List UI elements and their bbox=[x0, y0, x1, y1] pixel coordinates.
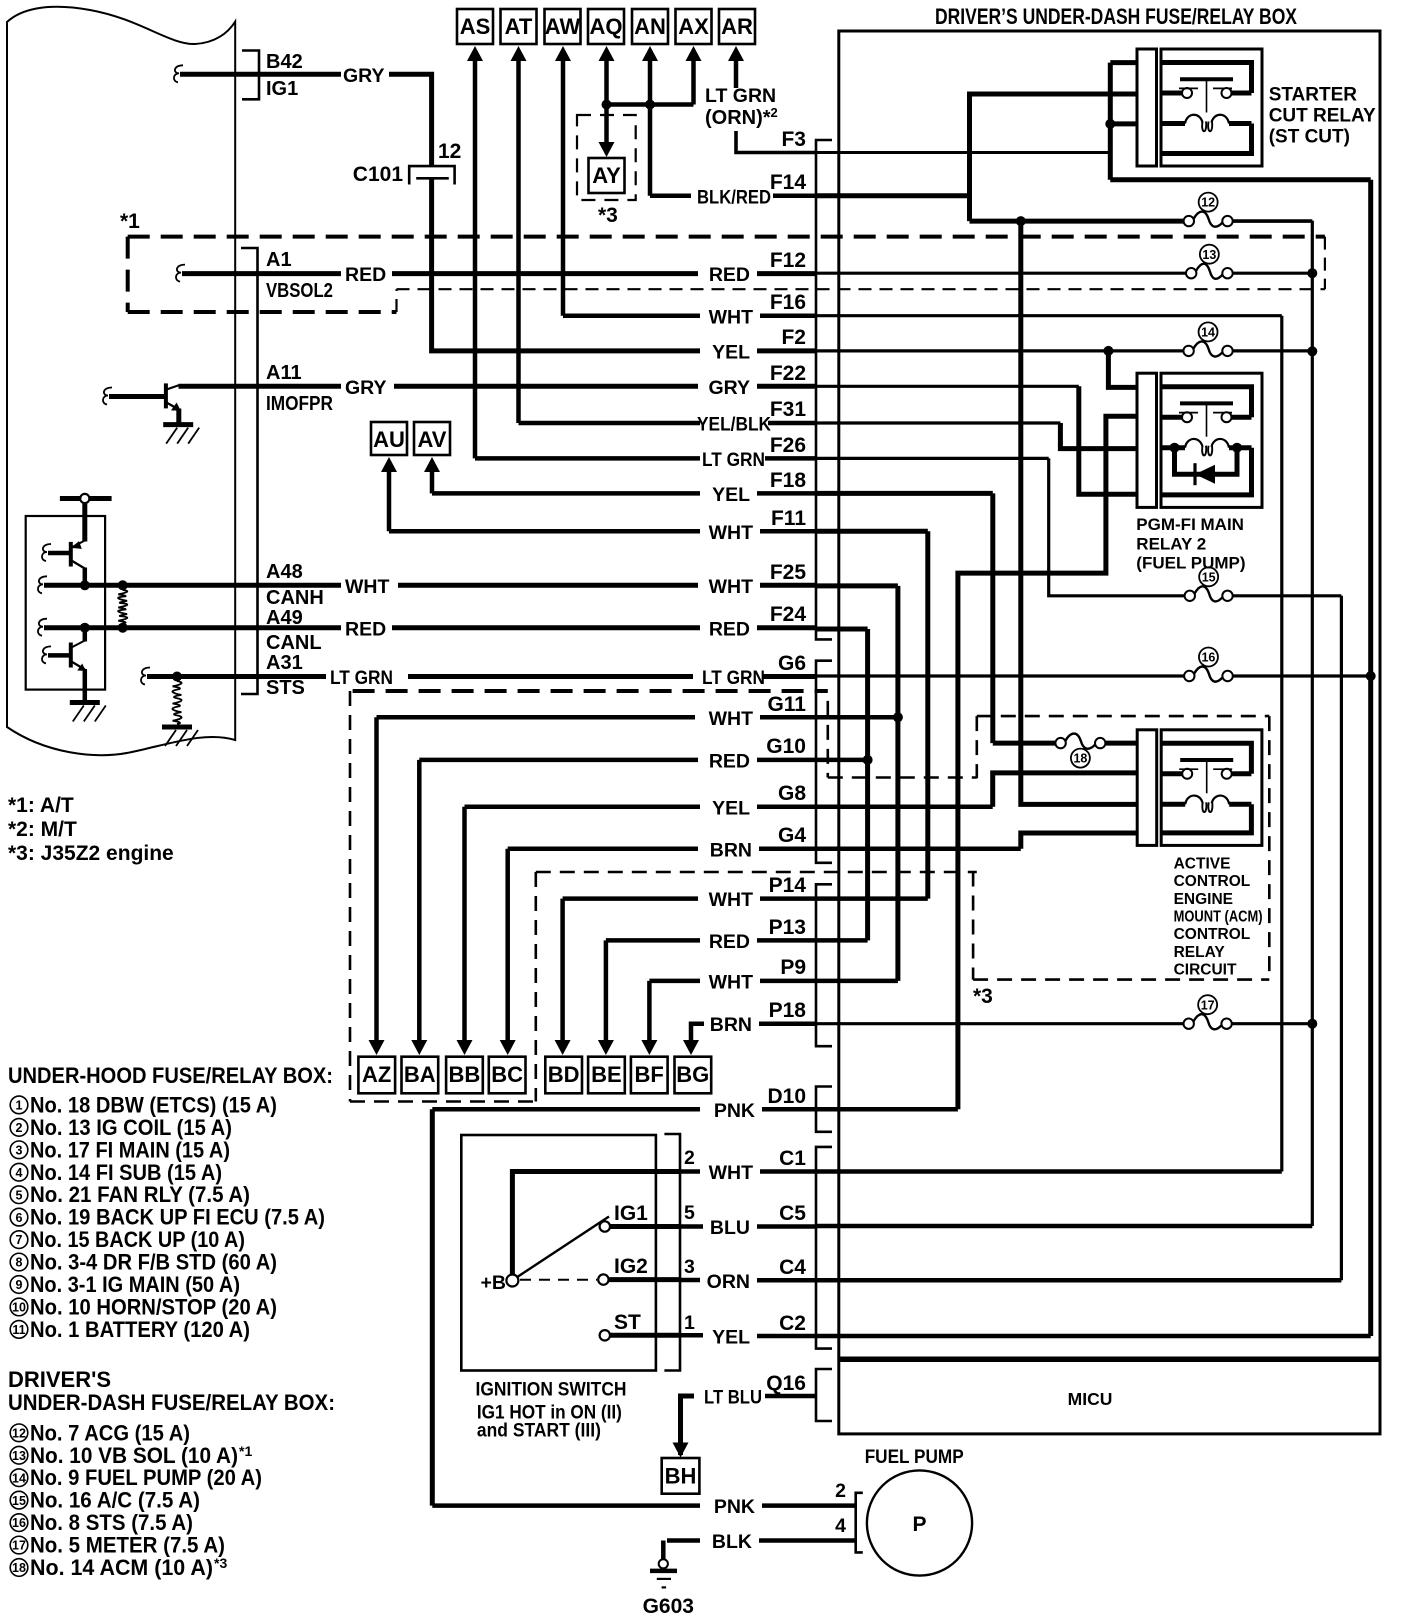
wire D10 inside box to riser bbox=[816, 1107, 958, 1112]
MICU box bbox=[839, 1361, 1380, 1434]
legend item 17 bbox=[10, 1536, 28, 1554]
svg-text:C5: C5 bbox=[779, 1202, 806, 1225]
connector box BH bbox=[662, 1458, 700, 1494]
wire fuse 12 feed bbox=[970, 219, 1184, 224]
ground wire G603 bbox=[661, 1541, 666, 1560]
svg-text:VBSOL2: VBSOL2 bbox=[266, 280, 333, 302]
svg-text:*1: A/T: *1: A/T bbox=[8, 794, 74, 817]
wire F16 to C1 riser bbox=[816, 314, 1282, 317]
wire ORN C4 bbox=[680, 1278, 700, 1283]
svg-text:11: 11 bbox=[12, 1323, 25, 1337]
legend item 11 bbox=[10, 1321, 28, 1339]
svg-text:8: 8 bbox=[16, 1256, 23, 1270]
svg-text:16: 16 bbox=[12, 1516, 26, 1530]
svg-text:1: 1 bbox=[16, 1099, 23, 1113]
wire F2 row to fuse 14 bbox=[816, 349, 1183, 352]
dashed region *1 (A/T) bbox=[128, 235, 1325, 239]
junction dot starter coil feed bbox=[1105, 119, 1115, 129]
svg-text:BG: BG bbox=[676, 1062, 709, 1087]
legend item 2 bbox=[10, 1119, 28, 1137]
junction dot G10 bbox=[863, 755, 873, 765]
wire WHT to F16 pin bbox=[563, 313, 700, 318]
terminal IG2 bbox=[598, 1274, 608, 1284]
wire F26 row to fuse 15 bbox=[816, 457, 1049, 460]
svg-text:No. 1 BATTERY (120 A): No. 1 BATTERY (120 A) bbox=[30, 1317, 250, 1342]
wire GRY from B42 to C101 bus bbox=[259, 72, 341, 77]
svg-text:BD: BD bbox=[548, 1062, 580, 1087]
svg-text:RED: RED bbox=[709, 751, 750, 773]
arrow into AV from F18 wire bbox=[424, 457, 440, 472]
svg-text:BH: BH bbox=[665, 1464, 697, 1489]
svg-text:12: 12 bbox=[1201, 196, 1215, 210]
connector box AN bbox=[632, 9, 668, 44]
svg-text:DRIVER'S: DRIVER'S bbox=[8, 1367, 111, 1392]
wire BLK/RED to F14 pin bbox=[650, 193, 691, 198]
svg-text:4: 4 bbox=[16, 1166, 23, 1180]
resistor (CAN termination) bbox=[118, 590, 127, 623]
wire starter relay contact from F14 riser bbox=[970, 94, 1137, 221]
svg-text:*1: *1 bbox=[120, 210, 140, 233]
svg-text:14: 14 bbox=[1201, 326, 1215, 340]
transistor Q IMOFPR driver bbox=[103, 388, 112, 405]
svg-text:16: 16 bbox=[1201, 651, 1215, 665]
connector box BA bbox=[402, 1057, 439, 1094]
wire A49 CANL bbox=[44, 625, 258, 630]
svg-text:A1: A1 bbox=[266, 249, 292, 271]
wire F11 row to P14 riser bbox=[816, 529, 928, 534]
svg-text:IG1: IG1 bbox=[614, 1202, 648, 1225]
svg-text:+B: +B bbox=[481, 1272, 506, 1294]
wire F22 row to relay2 bottom bbox=[816, 385, 1079, 388]
svg-text:No. 10 HORN/STOP (20 A): No. 10 HORN/STOP (20 A) bbox=[30, 1294, 277, 1319]
wire RED G10 to BA bbox=[419, 758, 698, 763]
connector box AY bbox=[589, 158, 625, 193]
svg-text:No. 3-1 IG MAIN (50 A): No. 3-1 IG MAIN (50 A) bbox=[30, 1272, 240, 1297]
wire G11 row inside box bbox=[816, 715, 898, 720]
connector bracket C bbox=[816, 1147, 832, 1349]
svg-text:F14: F14 bbox=[770, 171, 807, 194]
wire YEL G8 to BB bbox=[465, 805, 701, 810]
svg-text:No. 3-4 DR F/B STD (60 A): No. 3-4 DR F/B STD (60 A) bbox=[30, 1250, 277, 1275]
wire fuse17 output to C5 riser bbox=[1232, 1022, 1313, 1025]
svg-text:WHT: WHT bbox=[709, 889, 753, 911]
svg-text:YEL/BLK: YEL/BLK bbox=[697, 414, 771, 436]
inline connector C101 pin 12 bbox=[409, 166, 454, 184]
svg-text:3: 3 bbox=[684, 1256, 695, 1278]
svg-text:RED: RED bbox=[345, 619, 386, 641]
fuse 15 bbox=[1185, 591, 1195, 601]
svg-text:B42: B42 bbox=[266, 51, 303, 73]
legend item 9 bbox=[10, 1276, 28, 1294]
connector bracket B42 bbox=[242, 51, 259, 100]
wire YEL from C101 to F2 pin bbox=[432, 178, 700, 351]
legend item 7 bbox=[10, 1231, 28, 1249]
transistor Q2 (CANL) bbox=[42, 646, 51, 663]
svg-text:GRY: GRY bbox=[708, 377, 750, 399]
legend item 1 bbox=[10, 1096, 28, 1114]
relay connector bar bbox=[1137, 730, 1157, 846]
terminal squiggle A48 bbox=[38, 576, 47, 593]
svg-text:C4: C4 bbox=[779, 1256, 806, 1279]
svg-text:YEL: YEL bbox=[712, 484, 750, 506]
ground (STS resistor) bbox=[162, 725, 192, 730]
svg-text:(FUEL PUMP): (FUEL PUMP) bbox=[1136, 554, 1245, 573]
wire BRN G4 to BC bbox=[508, 847, 698, 852]
riser fuse14 to relay2 bbox=[1108, 351, 1136, 388]
legend item 10 bbox=[10, 1298, 28, 1316]
svg-text:AT: AT bbox=[505, 14, 533, 39]
legend item 15 bbox=[10, 1491, 28, 1509]
wire A1 to bracket bbox=[182, 271, 258, 276]
svg-text:No. 19 BACK UP FI ECU (7.5 A): No. 19 BACK UP FI ECU (7.5 A) bbox=[30, 1205, 325, 1230]
svg-text:G603: G603 bbox=[643, 1595, 694, 1618]
wire PNK D10 row bbox=[432, 1107, 700, 1112]
svg-text:CIRCUIT: CIRCUIT bbox=[1174, 962, 1237, 979]
svg-text:YEL: YEL bbox=[712, 798, 750, 820]
svg-text:P9: P9 bbox=[780, 956, 806, 979]
relay outer box bbox=[1161, 373, 1262, 507]
svg-text:AV: AV bbox=[418, 427, 447, 452]
DRIVER'S UNDER-DASH FUSE/RELAY BOX outline bbox=[839, 31, 1380, 1358]
wire starter relay feed loop bbox=[1110, 60, 1136, 65]
svg-text:G8: G8 bbox=[778, 782, 806, 805]
svg-text:ACTIVE: ACTIVE bbox=[1174, 855, 1231, 872]
svg-text:LT GRN: LT GRN bbox=[702, 449, 765, 471]
connector box AT bbox=[501, 9, 537, 44]
svg-text:IG1: IG1 bbox=[266, 78, 298, 100]
svg-text:RELAY 2: RELAY 2 bbox=[1136, 535, 1206, 554]
svg-text:WHT: WHT bbox=[709, 708, 753, 730]
wire WHT A48 to F25 pin bbox=[258, 583, 342, 588]
relay coil bbox=[1161, 445, 1185, 450]
svg-text:F11: F11 bbox=[771, 507, 806, 530]
arrow into BE bbox=[598, 1040, 614, 1055]
wire F3 row inside box bbox=[816, 151, 1110, 154]
connector bracket G bbox=[816, 661, 832, 863]
connector box AX bbox=[676, 9, 712, 44]
fuse 16 bbox=[1184, 671, 1194, 681]
wire YEL C2 bbox=[680, 1333, 703, 1338]
svg-text:C2: C2 bbox=[779, 1312, 806, 1335]
legend item 5 bbox=[10, 1186, 28, 1204]
svg-text:5: 5 bbox=[16, 1188, 23, 1202]
svg-text:CANL: CANL bbox=[266, 632, 322, 654]
svg-text:CANH: CANH bbox=[266, 587, 324, 609]
svg-text:and START (III): and START (III) bbox=[477, 1420, 601, 1442]
svg-text:LT GRN: LT GRN bbox=[705, 85, 776, 107]
terminal squiggle A1 bbox=[176, 265, 185, 282]
svg-text:LT BLU: LT BLU bbox=[704, 1387, 762, 1409]
svg-text:A31: A31 bbox=[266, 652, 303, 674]
legend item 12 bbox=[10, 1424, 28, 1442]
svg-text:RED: RED bbox=[709, 619, 750, 641]
transistor Q1 (CANH, PNP) bbox=[42, 544, 51, 561]
svg-text:BC: BC bbox=[491, 1062, 523, 1087]
svg-text:12: 12 bbox=[12, 1426, 26, 1440]
ground (IMOFPR emitter) bbox=[163, 422, 193, 427]
relay coil bbox=[1161, 802, 1185, 807]
riser C1 bbox=[1280, 316, 1283, 1172]
wire fuse16 output to right bus bbox=[1233, 674, 1371, 677]
connector bracket F bbox=[816, 140, 832, 639]
svg-text:13: 13 bbox=[1202, 248, 1216, 262]
wire B42 to bracket bbox=[180, 72, 259, 77]
arrow into BG bbox=[683, 1040, 699, 1055]
wire ST to bracket bbox=[610, 1333, 681, 1338]
svg-text:F25: F25 bbox=[770, 561, 807, 584]
wire G8 row to ACM contact bbox=[816, 805, 993, 810]
legend item 18 bbox=[10, 1559, 28, 1577]
svg-text:BRN: BRN bbox=[710, 1014, 752, 1036]
wire starter relay coil feed bbox=[1110, 121, 1136, 126]
svg-text:P: P bbox=[912, 1513, 926, 1536]
connector box AS bbox=[457, 9, 493, 44]
fuse 18 bbox=[1055, 738, 1065, 748]
svg-text:*3: *3 bbox=[214, 1555, 227, 1571]
terminal squiggle B42 bbox=[174, 65, 183, 82]
svg-text:No. 16 A/C (7.5 A): No. 16 A/C (7.5 A) bbox=[30, 1488, 200, 1513]
fuse 17 bbox=[1184, 1019, 1194, 1029]
wire C2 inside box bbox=[816, 1334, 1371, 1339]
wire fuse18 output to ACM relay bbox=[1105, 741, 1137, 746]
wire fuse 13 feed (F12) bbox=[816, 272, 1186, 275]
svg-text:C101: C101 bbox=[353, 163, 404, 186]
fuel pump connector bracket bbox=[856, 1493, 863, 1553]
svg-text:*3: J35Z2 engine: *3: J35Z2 engine bbox=[8, 842, 174, 865]
wire IG2 to bracket bbox=[608, 1277, 680, 1282]
svg-text:WHT: WHT bbox=[709, 972, 753, 994]
svg-text:Q16: Q16 bbox=[766, 1372, 806, 1395]
wire YEL/BLK to F31 pin bbox=[519, 421, 701, 426]
relay contact top loop bbox=[1161, 387, 1252, 418]
wire F31 row to relay2 coil bbox=[816, 421, 1060, 424]
arrow into AU from F11 wire bbox=[381, 457, 397, 472]
svg-text:(ORN)*2: (ORN)*2 bbox=[705, 105, 778, 129]
relay contact bbox=[1161, 415, 1182, 420]
connector box AR bbox=[719, 9, 755, 44]
svg-text:A11: A11 bbox=[266, 362, 302, 384]
wire PNK to fuel pump bbox=[432, 1503, 700, 1508]
fuse 12 bbox=[1184, 216, 1194, 226]
terminal IG1 bbox=[600, 1221, 610, 1231]
svg-text:MICU: MICU bbox=[1068, 1389, 1113, 1409]
svg-text:No. 8 STS (7.5 A): No. 8 STS (7.5 A) bbox=[30, 1510, 193, 1535]
svg-text:ST: ST bbox=[614, 1311, 641, 1334]
relay contact top loop bbox=[1161, 743, 1251, 774]
wire A48 CANH bbox=[44, 583, 258, 588]
wire LT BLU Q16 bbox=[681, 1396, 695, 1455]
svg-text:P13: P13 bbox=[769, 916, 806, 939]
wire F24 row to riser bbox=[816, 627, 868, 632]
connector box BG bbox=[675, 1057, 712, 1094]
supply node (CAN block) bbox=[60, 496, 112, 501]
svg-text:AN: AN bbox=[634, 14, 666, 39]
arrow into AS from F26 wire bbox=[467, 46, 483, 61]
svg-text:2: 2 bbox=[16, 1121, 23, 1135]
svg-text:*3: *3 bbox=[598, 204, 618, 227]
svg-text:LT GRN: LT GRN bbox=[330, 667, 393, 689]
junction dot fuse13 output bbox=[1307, 268, 1317, 278]
dashed blade to IG2 bbox=[520, 1279, 597, 1281]
terminal squiggle A31 bbox=[141, 668, 150, 685]
connector box AV bbox=[414, 422, 450, 455]
relay diode bbox=[1170, 443, 1180, 453]
svg-text:F16: F16 bbox=[770, 291, 806, 314]
svg-text:2: 2 bbox=[835, 1480, 846, 1502]
wire relay2 contact out to D10 riser bbox=[958, 416, 1137, 1109]
arrow into AW from F16 wire bbox=[555, 46, 571, 61]
legend item 6 bbox=[10, 1208, 28, 1226]
svg-text:*3: *3 bbox=[973, 985, 993, 1008]
svg-text:AR: AR bbox=[721, 14, 753, 39]
junction dot G11 bbox=[893, 712, 903, 722]
svg-text:F31: F31 bbox=[770, 398, 807, 421]
svg-text:No. 10 VB SOL (10 A): No. 10 VB SOL (10 A) bbox=[30, 1443, 238, 1468]
svg-text:7: 7 bbox=[16, 1233, 23, 1247]
terminal +B bbox=[506, 1275, 518, 1287]
svg-text:*2: M/T: *2: M/T bbox=[8, 818, 77, 841]
svg-text:GRY: GRY bbox=[343, 65, 385, 87]
CAN driver box bbox=[26, 516, 105, 690]
dashed region ACM relay circuit bbox=[975, 716, 978, 778]
connector box AZ bbox=[358, 1057, 395, 1094]
svg-text:CUT RELAY: CUT RELAY bbox=[1269, 106, 1376, 127]
wire P18 row to fuse 17 bbox=[816, 1022, 1184, 1025]
svg-text:FUEL PUMP: FUEL PUMP bbox=[865, 1446, 964, 1468]
svg-text:17: 17 bbox=[12, 1539, 26, 1553]
svg-text:No. 17 FI MAIN (15 A): No. 17 FI MAIN (15 A) bbox=[30, 1137, 230, 1162]
wire fuse18 feed bbox=[993, 741, 1056, 746]
fuse 13 bbox=[1186, 268, 1196, 278]
svg-text:IMOFPR: IMOFPR bbox=[266, 393, 333, 415]
wire G10 row inside box bbox=[816, 758, 868, 763]
connector box BB bbox=[446, 1057, 483, 1094]
svg-text:6: 6 bbox=[16, 1211, 23, 1225]
resistor (STS pulldown) bbox=[172, 681, 181, 724]
right bus to C2 bbox=[1368, 180, 1373, 1336]
svg-text:WHT: WHT bbox=[709, 307, 753, 329]
wire G4 row to ACM bottom bbox=[816, 847, 1021, 852]
riser fuse12 to C5 bbox=[1311, 221, 1314, 1226]
svg-text:*1: *1 bbox=[239, 1443, 252, 1459]
svg-text:AS: AS bbox=[460, 14, 491, 39]
relay bottom loop bbox=[1161, 804, 1251, 833]
svg-text:No. 18 DBW (ETCS) (15 A): No. 18 DBW (ETCS) (15 A) bbox=[30, 1092, 277, 1117]
svg-text:P18: P18 bbox=[769, 999, 807, 1022]
svg-text:RED: RED bbox=[709, 264, 750, 286]
fuel pump motor bbox=[867, 1470, 972, 1575]
legend item 8 bbox=[10, 1253, 28, 1271]
wire BLU C5 bbox=[680, 1224, 703, 1229]
svg-text:D10: D10 bbox=[767, 1085, 806, 1108]
dashed region (M/T jumpers) bbox=[826, 701, 829, 778]
wire WHT to F11 pin bbox=[389, 529, 700, 534]
svg-text:F18: F18 bbox=[770, 469, 807, 492]
svg-text:1: 1 bbox=[684, 1312, 695, 1334]
svg-text:ENGINE: ENGINE bbox=[1174, 891, 1233, 908]
junction dot fuse17/C5 riser bbox=[1307, 1019, 1317, 1029]
fuse 14 bbox=[1183, 346, 1193, 356]
svg-text:No. 14 FI SUB (15 A): No. 14 FI SUB (15 A) bbox=[30, 1160, 222, 1185]
svg-text:17: 17 bbox=[1201, 998, 1215, 1012]
wire WHT C1 bbox=[680, 1169, 700, 1174]
terminal squiggle A49 bbox=[38, 619, 47, 636]
svg-text:No. 9 FUEL PUMP (20 A): No. 9 FUEL PUMP (20 A) bbox=[30, 1465, 262, 1490]
svg-text:G6: G6 bbox=[778, 652, 806, 675]
junction dot fuse12/ACM bbox=[1016, 216, 1026, 226]
double arrow AQ to AY bbox=[599, 46, 615, 61]
svg-text:YEL: YEL bbox=[712, 342, 750, 364]
relay outer box bbox=[1161, 49, 1262, 166]
connector box BF bbox=[631, 1057, 668, 1094]
wire to F3 pin bbox=[736, 131, 816, 153]
svg-text:IGNITION SWITCH: IGNITION SWITCH bbox=[476, 1379, 627, 1401]
wire fuse 13 output bbox=[1233, 272, 1313, 275]
riser PNK to fuel pump bbox=[430, 1109, 435, 1505]
connector bracket P bbox=[816, 884, 832, 1046]
svg-text:No. 15 BACK UP (10 A): No. 15 BACK UP (10 A) bbox=[30, 1227, 245, 1252]
connector bracket A (ECM) bbox=[241, 248, 258, 694]
svg-text:STARTER: STARTER bbox=[1269, 85, 1358, 106]
relay bottom loop bbox=[1161, 124, 1252, 154]
dashed region *3 (P group) bbox=[536, 871, 977, 874]
connector box BC bbox=[489, 1057, 526, 1094]
junction dot relay2 feed bbox=[1103, 346, 1113, 356]
svg-text:F26: F26 bbox=[770, 434, 806, 457]
wire P14 row inside box bbox=[816, 896, 928, 901]
svg-text:G11: G11 bbox=[767, 693, 806, 716]
arrow into AT from F31 wire bbox=[511, 46, 527, 61]
svg-text:No. 21 FAN RLY (7.5 A): No. 21 FAN RLY (7.5 A) bbox=[30, 1182, 250, 1207]
svg-text:AW: AW bbox=[545, 14, 581, 39]
riser C4 bbox=[1340, 596, 1343, 1281]
wire LT GRN A31 to G6 pin bbox=[258, 674, 327, 679]
wire A31 STS bbox=[147, 674, 258, 679]
wire YEL to F18 pin bbox=[432, 491, 700, 496]
svg-text:BLK: BLK bbox=[712, 1531, 752, 1553]
relay outer box bbox=[1161, 730, 1262, 846]
connector box AQ bbox=[588, 9, 624, 44]
connector bracket D10 bbox=[816, 1087, 832, 1132]
ECM/PCM torn-edge outline bbox=[7, 7, 235, 755]
relay connector bar bbox=[1137, 373, 1157, 507]
arrow into AX bbox=[686, 46, 702, 61]
svg-text:18: 18 bbox=[12, 1561, 26, 1575]
arrow into BH bbox=[673, 1443, 689, 1458]
svg-text:F24: F24 bbox=[770, 603, 807, 626]
connector bracket Q16 bbox=[816, 1369, 832, 1421]
svg-text:RED: RED bbox=[345, 264, 386, 286]
wire WHT P9 to BF bbox=[649, 979, 700, 984]
wire F14 row inside box bbox=[816, 193, 970, 198]
svg-text:WHT: WHT bbox=[709, 522, 753, 544]
svg-text:(ST CUT): (ST CUT) bbox=[1269, 127, 1350, 148]
svg-text:UNDER-HOOD FUSE/RELAY BOX:: UNDER-HOOD FUSE/RELAY BOX: bbox=[8, 1063, 333, 1088]
ground (CANL emitter) bbox=[70, 700, 100, 705]
svg-text:CONTROL: CONTROL bbox=[1174, 873, 1251, 890]
svg-text:LT GRN: LT GRN bbox=[702, 667, 765, 689]
svg-text:GRY: GRY bbox=[345, 377, 387, 399]
dashed box *3 (AY) bbox=[577, 115, 636, 200]
svg-text:F3: F3 bbox=[781, 128, 806, 151]
svg-text:No. 7 ACG (15 A): No. 7 ACG (15 A) bbox=[30, 1420, 190, 1445]
relay contact top loop bbox=[1161, 63, 1252, 94]
svg-text:F12: F12 bbox=[770, 249, 806, 272]
legend item 3 bbox=[10, 1141, 28, 1159]
svg-text:PGM-FI MAIN: PGM-FI MAIN bbox=[1136, 515, 1244, 534]
wire C4 inside box bbox=[816, 1278, 1341, 1283]
svg-text:14: 14 bbox=[12, 1471, 26, 1485]
